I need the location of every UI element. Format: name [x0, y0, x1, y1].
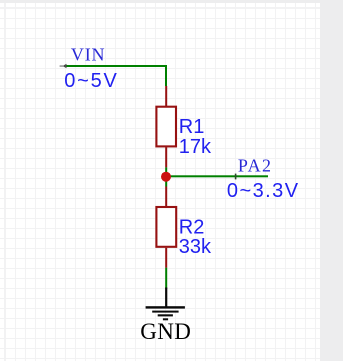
net label PA2 anchor tick — [235, 174, 237, 180]
port arrow tail — [60, 66, 65, 67]
ground stem — [165, 288, 167, 308]
ground bar 3 — [158, 314, 173, 316]
svg-text:17k: 17k — [179, 136, 212, 158]
ground bar 4 — [163, 318, 168, 320]
svg-text:33k: 33k — [179, 236, 212, 258]
junction node — [161, 172, 171, 182]
pin R1.1 — [165, 86, 167, 106]
svg-text:0~3.3V: 0~3.3V — [227, 180, 300, 202]
wire vertical from VIN — [165, 65, 167, 86]
svg-text:R1: R1 — [179, 116, 205, 138]
ground bar 1 — [146, 306, 185, 308]
svg-text:0~5V: 0~5V — [64, 70, 118, 92]
port arrow VIN — [63, 64, 67, 69]
svg-text:PA2: PA2 — [238, 155, 273, 175]
wire PA2 horizontal — [166, 175, 268, 177]
pin R2.2 — [165, 248, 167, 268]
resistor R2 — [156, 207, 176, 247]
svg-text:GND: GND — [140, 319, 191, 344]
wire below junction — [165, 177, 167, 187]
pin R2.1 — [165, 187, 167, 207]
ground bar 2 — [152, 311, 178, 313]
wire — [165, 167, 167, 176]
pin R1.2 — [165, 147, 167, 167]
svg-text:VIN: VIN — [71, 44, 105, 64]
wire to ground — [165, 268, 167, 289]
wire VIN horizontal — [64, 65, 167, 67]
resistor R1 — [156, 107, 176, 147]
